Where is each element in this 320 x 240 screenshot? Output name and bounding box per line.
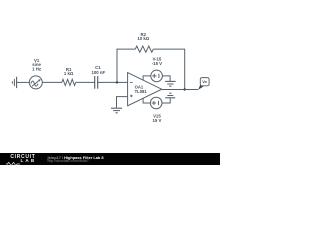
node flag Vo [198,78,209,90]
svg-text:TL081: TL081 [135,89,148,94]
svg-text:Vo: Vo [202,80,207,84]
wire op-amp V+ pin to V-15 source [143,76,151,81]
wire non-inverting input to ground [117,97,128,108]
wire feedback left vertical and top to R2 [117,49,135,82]
label V-15 -15 V [152,56,162,66]
CircuitLab logo [10,155,35,159]
resistor R1 [62,79,76,85]
node A junction dot [116,81,118,83]
label R1 1 kOhm [64,67,74,76]
wire V1 to R1 [42,81,62,83]
wire R2 to right corner and down to output junction [153,49,184,89]
wire op-amp output to Vo [162,89,199,91]
voltage source V15 [150,97,162,109]
ground (right of V-15) [165,81,176,86]
label V1 sine 1 Hz [32,58,41,71]
label C1 100 nF [91,65,105,75]
svg-text:1 Hz: 1 Hz [32,66,41,71]
ground (left of V1, pointing left) [12,77,16,88]
svg-text:-15 V: -15 V [152,61,162,66]
svg-text:15 V: 15 V [152,118,161,123]
svg-text:1 kΩ: 1 kΩ [64,71,74,76]
capacitor C1 [95,76,98,89]
footer bar [0,153,220,165]
svg-text:10 kΩ: 10 kΩ [137,36,149,41]
wire op-amp V- pin to V15 source [143,98,150,103]
wire V-15 to ground [162,76,170,81]
wire R1 to C1 [76,81,95,83]
wire ground to V1 [17,81,30,83]
ground (right of V15, inverted) [165,93,175,98]
op-amp OA1 TL081 [128,73,162,106]
wire V15 to ground [162,98,170,103]
voltage source V-15 [151,70,163,82]
label V15 15 V [152,114,161,124]
node B junction dot on output [184,88,186,90]
wire C1 to op-amp inverting input [98,81,128,83]
label OA1 TL081 [135,85,148,95]
label R2 10 kOhm [137,32,149,41]
resistor R2 [135,46,153,52]
ground (below + input) [111,108,122,113]
voltage source V1 (sine) [29,76,42,89]
svg-text:100 nF: 100 nF [91,70,105,75]
